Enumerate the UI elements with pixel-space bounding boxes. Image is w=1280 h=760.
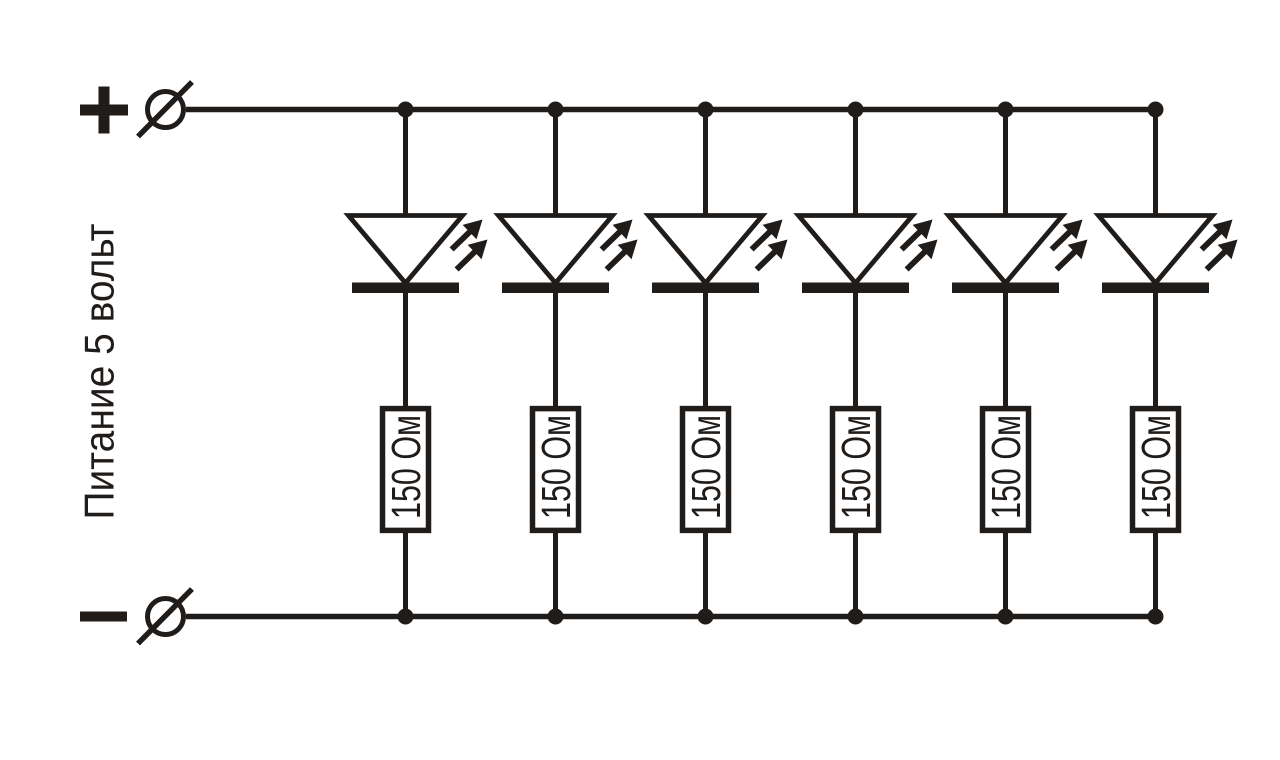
svg-text:Питание 5 вольт: Питание 5 вольт xyxy=(76,224,123,520)
